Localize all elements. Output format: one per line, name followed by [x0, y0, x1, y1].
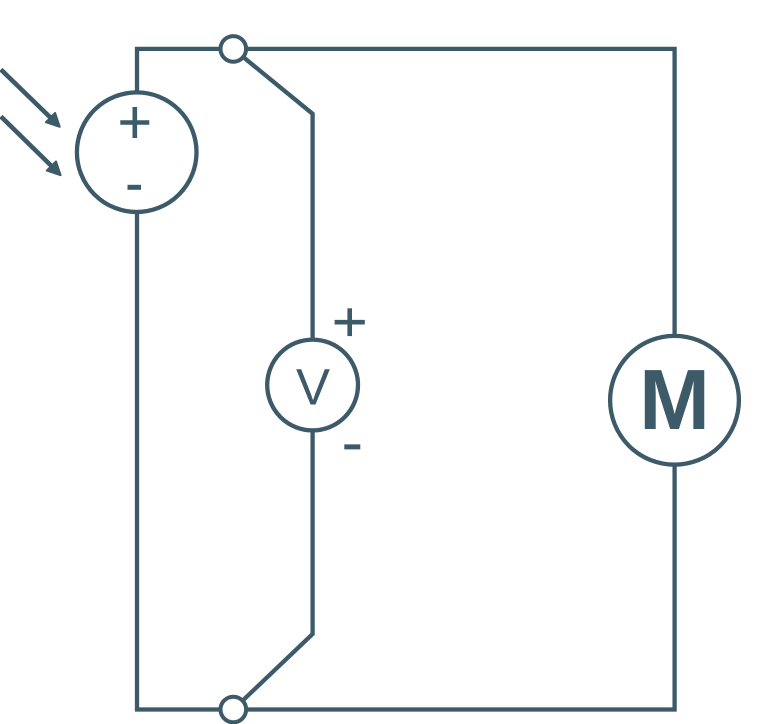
junction node bottom	[221, 697, 247, 723]
voltmeter minus sign	[344, 444, 360, 449]
voltmeter plus sign	[335, 308, 365, 336]
wire voltmeter branch	[233, 49, 312, 710]
svg-text:M: M	[639, 353, 710, 448]
source plus sign	[120, 107, 149, 138]
wire outer loop	[137, 49, 675, 710]
svg-text:V: V	[296, 358, 330, 415]
motor circle M	[610, 336, 739, 465]
light arrow 1	[1, 70, 60, 127]
voltmeter circle V	[267, 340, 358, 431]
junction node top	[221, 36, 247, 62]
light arrow 2	[1, 117, 61, 176]
solar cell source circle	[77, 92, 197, 212]
source minus sign	[128, 185, 142, 190]
